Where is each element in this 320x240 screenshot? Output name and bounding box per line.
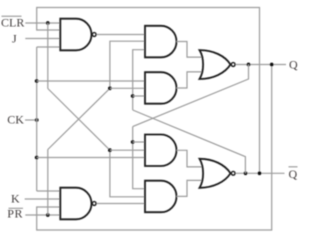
wire CK vertical rail — [36, 47, 38, 191]
node CK branch upper — [35, 79, 39, 83]
node CLR-diagonal junction — [108, 148, 112, 152]
wire CK stub to NAND G1 pin4 — [37, 46, 61, 48]
wire PR rail vertical to diagonal start — [47, 150, 49, 216]
label CLR (with overline) — [1, 16, 24, 30]
wire J input to NAND G1 pin3 — [25, 38, 60, 40]
wire CK stub to NAND G2 pin1 — [37, 190, 61, 192]
wire PR input to NAND G2 pin4 — [25, 214, 60, 216]
wire NAND G2 output to AND G7 pin3 — [97, 203, 145, 205]
node Q rail tap — [270, 63, 274, 67]
NOR gate G5 (top) — [200, 50, 236, 79]
svg-text:J: J — [12, 32, 17, 46]
NAND gate G2 (bottom-left, 4-input) — [60, 188, 96, 220]
node PR junction — [46, 213, 50, 217]
svg-text:CK: CK — [7, 113, 24, 127]
wire gate D pin2 riser — [110, 150, 145, 197]
wire node to AND G6 pin2 — [110, 149, 145, 151]
wire Q output line — [236, 64, 286, 66]
svg-text:Q: Q — [289, 57, 298, 71]
wire AND G6 output step to NOR G8 pin1 — [177, 150, 204, 167]
wire Q-bar cross feedback to slave column — [133, 110, 246, 173]
AND gate G3 (gate A) — [145, 26, 177, 58]
wire Q-bar feedback top rail — [37, 8, 260, 174]
svg-text:K: K — [11, 192, 20, 206]
wire PR cross diagonal to node at gate A column — [48, 88, 110, 149]
svg-text:CLR: CLR — [1, 16, 24, 30]
wire lower slave rail from AND G7 pin1 — [133, 127, 145, 189]
node Q-bar rail tap — [258, 171, 262, 175]
wire gate A pin2 riser — [110, 41, 145, 88]
node Q feedback junction — [131, 140, 135, 144]
label PR (with overline) — [7, 207, 23, 221]
wire NAND G1 output to AND G3 pin1 — [97, 34, 145, 36]
AND gate G4 (gate B) — [145, 72, 177, 104]
label Q-bar (with overline) — [289, 167, 298, 181]
node CK branch lower — [35, 156, 39, 160]
node CK junction — [35, 118, 39, 122]
wire AND G7 output step to NOR G8 pin2 — [177, 180, 204, 196]
NAND gate G1 (top-left, 4-input) — [60, 19, 96, 51]
wire node to AND G4 pin3 — [133, 95, 145, 97]
svg-text:Q: Q — [289, 167, 298, 181]
AND gate G7 (gate D) — [145, 181, 177, 213]
wire AND G4 output step to NOR G5 pin2 — [177, 72, 204, 88]
AND gate G6 (gate C) — [145, 135, 177, 167]
wire CK branch to AND G4 pin1 — [37, 80, 145, 82]
node Q-bar feedback junction — [131, 94, 135, 98]
node CLR junction — [46, 21, 50, 25]
node PR-diagonal junction — [108, 86, 112, 90]
wire CLR rail vertical to diagonal start — [47, 23, 49, 89]
node Q feedback tap — [247, 63, 251, 67]
wire Q feedback bottom rail — [37, 65, 272, 231]
wire Q cross feedback to slave column — [133, 65, 249, 127]
wire CK branch to AND G6 pin3 — [37, 157, 145, 159]
wire K input to NAND G2 pin2 — [25, 198, 61, 200]
wire AND G3 output step to NOR G5 pin1 — [177, 42, 204, 58]
wire CK input stub — [25, 119, 37, 121]
node Q-bar feedback tap — [244, 171, 248, 175]
NOR gate G8 (bottom) — [200, 159, 236, 188]
wire CLR input to NAND G1 pin1 — [25, 22, 60, 24]
wire Q-bar output line — [236, 172, 285, 174]
wire node to AND G6 pin1 — [133, 141, 145, 143]
wire upper slave rail from AND G3 pin3 — [133, 50, 145, 110]
wire CLR cross diagonal to node at gate D column — [48, 89, 110, 151]
wire node to AND G4 pin2 — [110, 87, 145, 89]
